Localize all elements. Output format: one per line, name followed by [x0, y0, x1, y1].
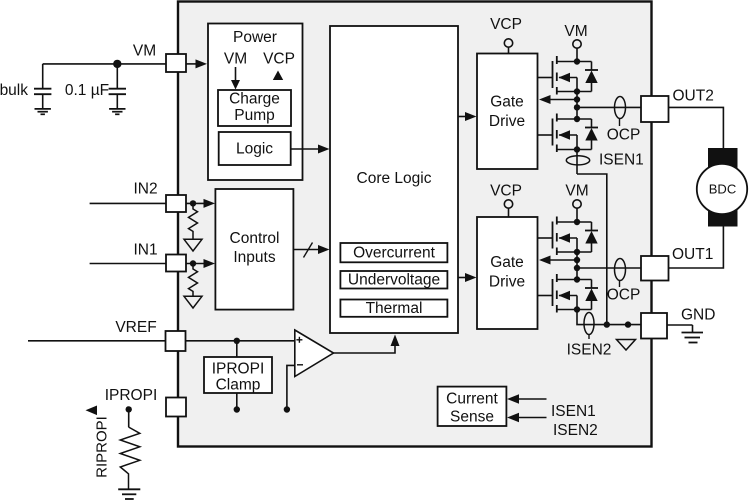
svg-text:Inputs: Inputs — [233, 249, 275, 266]
node OUT2 tap dot — [574, 104, 580, 110]
ground arrow IN1 — [184, 296, 202, 308]
ground for RIPROPI — [118, 489, 140, 499]
svg-text:VM: VM — [224, 51, 247, 68]
svg-text:Overcurrent: Overcurrent — [353, 245, 436, 262]
svg-text:ISEN2: ISEN2 — [553, 422, 598, 439]
diode D4 body diode Q4 — [585, 280, 598, 310]
Gate Drive 1 block — [477, 54, 538, 170]
svg-text:BDC: BDC — [709, 182, 736, 197]
arrow IPROPI current direction — [86, 406, 98, 416]
op-amp U2 — [295, 330, 334, 377]
svg-text:Thermal: Thermal — [366, 300, 423, 317]
wire IN2 — [90, 202, 166, 204]
pin IN1 — [166, 255, 186, 272]
node terminal dot below IPROPI Clamp — [234, 406, 240, 412]
wire Q4 source to GND rail — [577, 310, 642, 325]
node IPROPI dot — [126, 406, 132, 412]
wire IPROPI node to resistor — [128, 409, 130, 427]
wire IPROPI Clamp down to terminal — [236, 393, 238, 407]
svg-text:IPROPI: IPROPI — [212, 361, 265, 378]
node Q3 drain dot — [574, 219, 580, 225]
svg-text:IN2: IN2 — [133, 181, 157, 198]
svg-text:Charge: Charge — [229, 91, 280, 108]
motor brush top — [708, 148, 738, 168]
VM internal label with down arrow — [224, 51, 247, 90]
wire IN1 — [90, 263, 166, 265]
wire ISEN2 into Current Sense with arrow — [507, 413, 547, 423]
svg-text:bulk: bulk — [0, 82, 28, 99]
wire switch node 2 to OUT1 pin — [577, 267, 642, 269]
svg-text:Core Logic: Core Logic — [357, 170, 432, 187]
node Q3 source dot — [574, 249, 580, 255]
pin OUT1 — [641, 256, 669, 281]
VM terminal 1 circle — [573, 40, 581, 48]
wire OUT2 to motor — [669, 107, 724, 148]
svg-text:OCP: OCP — [607, 127, 641, 144]
svg-text:Current: Current — [446, 391, 498, 408]
svg-text:Drive: Drive — [489, 274, 525, 291]
bus wire Control Inputs to Core Logic with slash and arrow — [293, 243, 329, 258]
chip body U1 — [178, 2, 652, 447]
svg-text:ISEN1: ISEN1 — [599, 152, 644, 169]
node IN1 junction dot — [190, 260, 196, 266]
pin IN2 — [166, 195, 186, 212]
motor BDC — [697, 164, 747, 214]
svg-text:VM: VM — [133, 43, 156, 60]
wire op-amp output to Core Logic with arrow — [334, 335, 400, 354]
wire op-amp inverting input down to terminal — [287, 365, 295, 406]
wire switch node 1 to OUT2 pin — [577, 106, 642, 108]
svg-text:OUT1: OUT1 — [672, 246, 713, 263]
Power block — [208, 24, 303, 181]
VM net wire — [43, 63, 166, 65]
wire switch node 2 — [576, 252, 578, 280]
svg-text:GND: GND — [681, 307, 715, 324]
pin IPROPI — [166, 398, 186, 417]
pin OUT2 — [641, 96, 669, 122]
ground arrow on GND rail — [617, 340, 636, 351]
transistor Q2 low-side half-bridge 1 — [538, 114, 592, 153]
ISEN2 sense ellipse — [584, 313, 594, 340]
wire VCP to Gate Drive 1 — [508, 47, 510, 53]
resistor IN2 pulldown — [189, 203, 198, 239]
resistor IN1 pulldown — [189, 264, 198, 297]
wire Core Logic to Gate Drive 2 with arrow — [458, 273, 477, 282]
OCP sense ellipse half-bridge 2 — [607, 259, 641, 304]
transistor Q3 high-side half-bridge 2 — [538, 217, 592, 256]
transistor Q1 high-side half-bridge 1 — [538, 56, 592, 95]
node VREF junction dot — [234, 338, 240, 344]
svg-text:Pump: Pump — [234, 107, 275, 124]
node Q4 source dot — [574, 306, 580, 312]
Core Logic block — [330, 26, 458, 333]
svg-text:0.1 µF: 0.1 µF — [65, 82, 109, 99]
svg-text:VM: VM — [564, 23, 587, 40]
transistor Q4 low-side half-bridge 2 — [538, 274, 592, 313]
wire VM pin to Power with arrow — [186, 59, 207, 68]
svg-text:Control: Control — [230, 230, 280, 247]
wire switch node 1 — [576, 92, 578, 120]
wire IN2 pin to Control Inputs with arrow — [186, 199, 215, 208]
diode D1 body diode Q1 — [585, 62, 598, 92]
node GND rail dot — [625, 321, 631, 327]
pin GND — [641, 313, 667, 339]
svg-text:Power: Power — [233, 29, 277, 46]
svg-text:Clamp: Clamp — [216, 377, 261, 394]
node terminal dot op-amp inverting input — [284, 406, 290, 412]
svg-text:ISEN2: ISEN2 — [567, 342, 612, 359]
VCP terminal 2 circle — [504, 200, 512, 208]
svg-text:VREF: VREF — [115, 319, 156, 336]
node IN2 junction dot — [190, 200, 196, 206]
node Q4 drain dot — [574, 276, 580, 282]
pin VM — [166, 54, 186, 72]
VCP terminal 1 circle — [504, 39, 512, 47]
node Q2 drain dot — [574, 116, 580, 122]
node ISEN1 junction on GND rail — [604, 321, 610, 327]
svg-text:ISEN1: ISEN1 — [551, 403, 596, 420]
Charge Pump block — [218, 90, 291, 126]
node switch 2 feedback dot — [574, 257, 580, 263]
wire VM terminal to Q3 drain — [576, 208, 578, 222]
Thermal block — [340, 300, 447, 318]
ground arrow IN2 — [184, 239, 202, 251]
wire VREF to op-amp — [186, 340, 295, 342]
Logic block — [219, 132, 291, 165]
wire VCP to Gate Drive 2 — [508, 208, 510, 217]
wire Logic to Core Logic with arrow — [291, 145, 330, 154]
OCP sense ellipse half-bridge 1 — [607, 97, 641, 144]
svg-text:Sense: Sense — [450, 409, 494, 426]
ground for bulk capacitor — [35, 109, 51, 114]
node Q1 source dot — [574, 88, 580, 94]
svg-text:VCP: VCP — [490, 183, 522, 200]
ground for GND pin — [682, 325, 704, 343]
wire OUT1 to motor — [669, 227, 724, 269]
VCP internal label with up arrow — [263, 51, 295, 81]
svg-text:Undervoltage: Undervoltage — [348, 272, 440, 289]
wire ISEN1 down to GND node — [577, 174, 607, 325]
svg-text:IPROPI: IPROPI — [105, 387, 158, 404]
diode D3 body diode Q3 — [585, 222, 598, 252]
ISEN1 sense ellipse — [566, 156, 589, 165]
motor brush bottom — [708, 207, 738, 227]
svg-text:VM: VM — [565, 183, 588, 200]
VM terminal 2 circle — [573, 200, 581, 208]
svg-text:RIPROPI: RIPROPI — [94, 416, 111, 478]
node Q1 drain dot — [574, 58, 580, 64]
wire GND pin to ground — [667, 324, 693, 326]
svg-text:Gate: Gate — [490, 94, 524, 111]
resistor RIPROPI — [120, 427, 140, 489]
diode D2 body diode Q2 — [585, 119, 598, 150]
wire Core Logic to Gate Drive 1 with arrow — [458, 112, 477, 121]
wire ISEN1 into Current Sense with arrow — [507, 394, 547, 404]
Control Inputs block — [215, 189, 293, 310]
svg-text:Logic: Logic — [236, 141, 273, 158]
bulk capacitor — [0, 64, 51, 109]
wire Q2 source through ISEN1 sensor — [576, 150, 578, 175]
ground for 0.1 uF capacitor — [109, 109, 125, 114]
wire VREF — [28, 340, 166, 342]
svg-text:OUT2: OUT2 — [673, 88, 714, 105]
Current Sense block — [438, 387, 507, 426]
wire IN1 pin to Control Inputs with arrow — [186, 259, 215, 268]
wire switch node 1 feedback to Gate Drive 1 with arrow — [539, 95, 577, 104]
Overcurrent block — [340, 243, 447, 262]
node switch 1 feedback dot — [574, 96, 580, 102]
Undervoltage block — [340, 271, 447, 289]
svg-text:Drive: Drive — [489, 113, 525, 130]
wire VM terminal to Q1 drain — [576, 48, 578, 61]
pin VREF — [166, 331, 186, 351]
svg-text:VCP: VCP — [490, 16, 522, 33]
capacitor 0.1 uF — [65, 64, 126, 109]
IPROPI Clamp block — [204, 357, 272, 394]
svg-text:VCP: VCP — [263, 51, 295, 68]
svg-text:Gate: Gate — [490, 254, 524, 271]
Gate Drive 2 block — [477, 217, 538, 329]
svg-text:IN1: IN1 — [133, 242, 157, 259]
wire VREF node down to IPROPI Clamp — [236, 341, 238, 357]
node Q2 source dot — [574, 146, 580, 152]
node VM junction dot — [113, 60, 121, 68]
wire switch node 2 feedback to Gate Drive 2 with arrow — [539, 256, 577, 265]
node OUT1 tap dot — [574, 265, 580, 271]
svg-text:OCP: OCP — [607, 287, 641, 304]
